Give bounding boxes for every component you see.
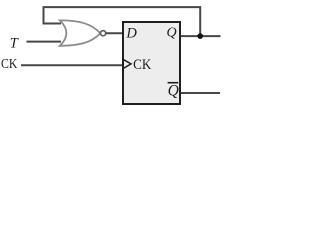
wire: Q-bar output xyxy=(181,92,220,94)
gate U1 output bubble xyxy=(101,31,106,36)
svg-text:CK: CK xyxy=(1,56,18,71)
svg-text:CK: CK xyxy=(133,57,151,73)
wire: T input to gate xyxy=(27,41,62,43)
svg-text:T: T xyxy=(10,35,19,51)
wire: feedback top horizontal xyxy=(44,7,201,34)
wire: feedback stub into gate top input xyxy=(43,23,62,25)
junction node (Q feedback tap) xyxy=(197,33,203,39)
wire: gate output to D input xyxy=(106,32,123,34)
svg-text:Q: Q xyxy=(167,26,177,41)
clock triangle pin xyxy=(123,59,131,68)
gate U1 (NOR) body xyxy=(60,20,101,45)
svg-text:Q: Q xyxy=(168,82,179,99)
wire: Q output xyxy=(181,35,221,37)
svg-text:D: D xyxy=(125,26,137,42)
wire: CK to flip-flop xyxy=(21,64,123,66)
overline of Q-bar xyxy=(168,82,179,84)
flip-flop U2 box xyxy=(123,22,180,104)
